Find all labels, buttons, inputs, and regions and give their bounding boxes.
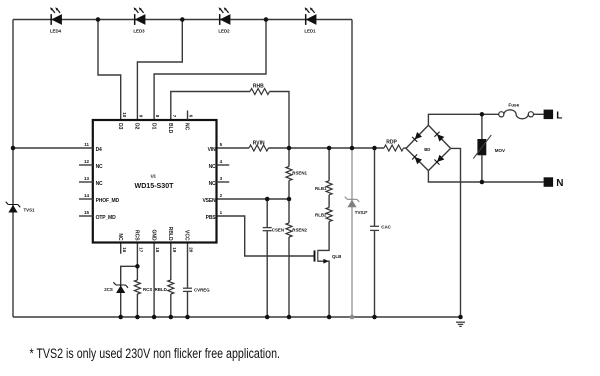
svg-text:CAC: CAC [381, 225, 391, 230]
svg-text:BLD: BLD [167, 123, 173, 134]
svg-text:QLB: QLB [332, 254, 341, 259]
svg-text:19: 19 [172, 247, 177, 253]
svg-text:D2: D2 [134, 123, 140, 130]
svg-text:D3: D3 [117, 123, 123, 130]
svg-text:VIN: VIN [208, 147, 216, 153]
svg-text:* TVS2 is only used 230V non f: * TVS2 is only used 230V non flicker fre… [30, 346, 281, 361]
svg-text:RSEN1: RSEN1 [292, 170, 307, 175]
svg-text:RHB: RHB [253, 84, 264, 90]
svg-text:NC: NC [96, 164, 103, 170]
svg-text:OTP_MD: OTP_MD [96, 215, 116, 221]
svg-text:NC: NC [184, 123, 190, 131]
svg-text:Fuse: Fuse [508, 103, 519, 108]
svg-text:2CS: 2CS [104, 287, 113, 292]
svg-text:11: 11 [84, 142, 89, 147]
svg-text:LED1: LED1 [304, 28, 316, 33]
svg-text:NC: NC [209, 181, 216, 187]
svg-text:20: 20 [189, 247, 194, 253]
svg-text:WD15-S30T: WD15-S30T [135, 181, 174, 190]
svg-text:L: L [556, 110, 562, 121]
svg-text:LED3: LED3 [133, 28, 145, 33]
svg-text:RCS: RCS [134, 230, 140, 241]
svg-text:CSEN: CSEN [272, 228, 284, 233]
svg-text:RVIN: RVIN [253, 140, 265, 146]
svg-text:CVREG: CVREG [194, 288, 210, 293]
svg-text:RBLD: RBLD [155, 287, 167, 292]
svg-text:MOV: MOV [495, 148, 505, 153]
svg-text:14: 14 [84, 193, 90, 198]
svg-text:15: 15 [84, 210, 90, 215]
svg-text:D1: D1 [150, 123, 156, 130]
svg-text:17: 17 [139, 247, 144, 253]
svg-text:LED2: LED2 [218, 28, 230, 33]
svg-text:VCC: VCC [184, 230, 190, 241]
svg-text:PBS: PBS [206, 215, 217, 221]
svg-text:RDP: RDP [386, 140, 397, 146]
svg-text:10: 10 [122, 112, 127, 118]
svg-text:GND: GND [150, 229, 156, 241]
svg-text:PHOF_MD: PHOF_MD [96, 198, 120, 204]
svg-text:TVS2*: TVS2* [355, 210, 368, 215]
svg-text:U1: U1 [151, 174, 157, 179]
svg-text:13: 13 [84, 176, 90, 181]
svg-text:RLB2: RLB2 [315, 212, 327, 217]
svg-text:12: 12 [84, 159, 90, 164]
svg-text:RCS: RCS [143, 287, 152, 292]
svg-text:N: N [556, 178, 563, 189]
svg-text:RLB1: RLB1 [315, 186, 327, 191]
svg-text:D4: D4 [96, 147, 102, 153]
svg-text:RSEN2: RSEN2 [292, 228, 307, 233]
svg-text:16: 16 [122, 247, 127, 253]
svg-text:VSEN: VSEN [202, 198, 216, 204]
svg-text:NC: NC [96, 181, 103, 187]
svg-text:NC: NC [209, 164, 216, 170]
svg-text:TVS1: TVS1 [24, 208, 36, 213]
svg-text:NC: NC [117, 233, 123, 241]
svg-text:RBLD: RBLD [167, 227, 173, 241]
svg-text:BD: BD [424, 147, 430, 152]
svg-text:LED4: LED4 [50, 28, 62, 33]
svg-text:18: 18 [155, 247, 160, 253]
